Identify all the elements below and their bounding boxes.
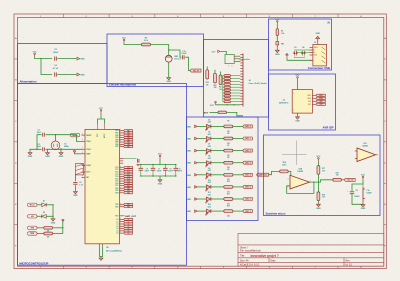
resistor R4	[44, 232, 53, 235]
resistor R13 10k	[333, 178, 342, 181]
svg-text:GND: GND	[28, 156, 33, 158]
svg-text:RESET: RESET	[86, 135, 91, 137]
ground flag right of C2	[77, 57, 85, 60]
svg-text:D+: D+	[314, 52, 316, 54]
svg-text:MIC_IN: MIC_IN	[347, 179, 353, 181]
svg-text:MOSI: MOSI	[307, 98, 311, 100]
svg-text:D5: D5	[208, 119, 210, 121]
diode D1	[37, 204, 42, 206]
connector J3 Controller	[225, 54, 234, 63]
hier label MIC_IN	[344, 178, 355, 181]
ferrite FB1	[276, 36, 278, 42]
svg-text:GND: GND	[45, 156, 50, 158]
svg-text:C6: C6	[178, 168, 180, 170]
svg-text:SET: SET	[204, 113, 209, 115]
ladder left bus	[222, 76, 224, 102]
svg-text:PB0: PB0	[115, 130, 118, 132]
sheet box connector area	[204, 40, 269, 118]
svg-text:L2: L2	[117, 224, 119, 226]
wire caps left bus to GND	[37, 135, 42, 150]
zener D3	[294, 51, 306, 56]
wire + hier label LED_1	[233, 138, 243, 140]
capacitor C5 100nF	[140, 165, 142, 169]
svg-text:X1: X1	[64, 144, 66, 146]
svg-text:PC5: PC5	[115, 178, 118, 180]
svg-text:Système micro: Système micro	[266, 212, 286, 216]
connector J4 Conn_01x05_Socket	[242, 54, 244, 107]
svg-text:PC3: PC3	[115, 174, 118, 176]
wire + hier label LED_3	[233, 162, 243, 164]
svg-text:LED_3: LED_3	[245, 162, 251, 164]
svg-text:1000uF: 1000uF	[354, 196, 360, 198]
resistor R19 (vertical)	[206, 70, 209, 79]
svg-text:GND: GND	[80, 74, 85, 76]
svg-text:10k: 10k	[219, 89, 222, 91]
svg-text:Sheet: /: Sheet: /	[240, 246, 248, 249]
capacitor C6 100nF	[175, 165, 177, 169]
svg-text:L6: L6	[117, 233, 119, 235]
LED D6	[197, 138, 206, 140]
resistor R12 330	[211, 210, 224, 212]
resistor R18 10k	[317, 182, 319, 192]
LED D11	[197, 198, 206, 200]
svg-text:Title:: Title:	[240, 255, 245, 258]
svg-text:PB2: PB2	[115, 135, 118, 137]
svg-text:KiCad E.D.A. 8.0.2: KiCad E.D.A. 8.0.2	[240, 263, 260, 266]
ladder resistor row 5	[224, 89, 231, 91]
svg-text:GND: GND	[275, 54, 280, 56]
ISP pin label SCK	[312, 100, 315, 102]
capacitor C9 100nF	[164, 165, 166, 169]
wire R13 to MIC_IN	[341, 179, 344, 181]
svg-text:J5: J5	[314, 42, 316, 44]
svg-text:Conn_01x05_Socket: Conn_01x05_Socket	[249, 82, 268, 85]
svg-text:VCC: VCC	[99, 108, 104, 110]
svg-text:D10: D10	[208, 180, 211, 182]
resistor R1	[44, 226, 53, 229]
svg-text:GND: GND	[158, 183, 163, 185]
svg-text:10k: 10k	[336, 175, 339, 177]
LED D12	[197, 210, 206, 212]
svg-text:SCK: SCK	[320, 101, 323, 103]
op-amp U9A LM386	[290, 175, 310, 189]
svg-text:330: 330	[227, 155, 230, 157]
svg-text:LM386: LM386	[362, 146, 368, 148]
svg-text:R3: R3	[145, 37, 147, 39]
svg-text:D6: D6	[208, 132, 210, 134]
resistor R21 (vertical)	[219, 75, 222, 85]
IC bottom GND pins	[99, 244, 101, 247]
resistor R14 100k	[280, 170, 289, 173]
sheet box Alimentation	[18, 44, 108, 84]
resistor R7 330	[211, 150, 224, 152]
wire VCC to C2/C4	[35, 57, 53, 59]
power flag VCC (microphone)	[123, 39, 125, 43]
wire VBUS	[287, 57, 313, 60]
ladder resistor row 7	[224, 95, 231, 97]
svg-text:C2: C2	[54, 49, 56, 51]
ladder resistor row 6	[224, 92, 231, 94]
ladder resistor row 0	[224, 75, 231, 77]
ground flag (LED 6)	[186, 198, 197, 201]
resistor R9 330	[211, 174, 224, 176]
capacitor C10 100nF	[183, 55, 185, 59]
svg-text:VCC: VCC	[210, 105, 215, 107]
ground flag (LED 7)	[186, 210, 197, 213]
svg-text:PD7: PD7	[115, 215, 118, 217]
USB connector J5	[313, 44, 327, 66]
crystal X1 8MHz	[51, 141, 60, 150]
feedback loop	[287, 182, 314, 193]
svg-text:R8: R8	[227, 157, 229, 159]
svg-text:10 k: 10 k	[322, 170, 325, 172]
wire VCC bracket to VCC/AVCC pins	[100, 113, 102, 119]
svg-text:Innovative projet ?: Innovative projet ?	[251, 254, 279, 258]
ladder resistor row 2	[224, 80, 231, 82]
svg-text:100nF: 100nF	[181, 53, 187, 55]
ground flag (LED 2)	[186, 149, 197, 152]
wire + hier label LED_5	[233, 186, 243, 188]
wire gnd to J3	[220, 51, 226, 54]
svg-text:GND: GND	[186, 151, 191, 153]
svg-text:Controller: Controller	[240, 58, 251, 61]
svg-text:L5: L5	[117, 230, 119, 232]
svg-text:VCC: VCC	[158, 153, 163, 155]
svg-text:PD3: PD3	[115, 190, 118, 192]
sheet box MICROCONTROLEUR	[18, 84, 187, 266]
ladder resistor row 3	[224, 83, 231, 85]
resistor R6 330	[211, 138, 224, 140]
svg-text:VCC: VCC	[122, 37, 127, 39]
svg-text:GND: GND	[316, 208, 321, 210]
local label Reset (IC)	[70, 133, 80, 136]
svg-text:FB1: FB1	[281, 43, 284, 45]
svg-text:10k: 10k	[214, 87, 217, 89]
svg-text:330: 330	[227, 131, 230, 133]
svg-text:Rev:: Rev:	[346, 260, 351, 262]
sheet box Systeme micro	[264, 135, 381, 216]
hier label AMP_OUT	[257, 173, 269, 176]
svg-text:330: 330	[227, 191, 230, 193]
wire C3 to XTAL2	[46, 148, 82, 150]
svg-text:PB6: PB6	[115, 144, 118, 146]
resistor R20 (vertical)	[214, 73, 217, 83]
capacitor C11 1000uF	[350, 192, 354, 194]
svg-text:R10: R10	[227, 181, 230, 183]
microphone MK1	[165, 55, 172, 62]
ISP pin label MOSI	[312, 97, 315, 99]
svg-text:330: 330	[227, 203, 230, 205]
svg-text:100nF: 100nF	[144, 171, 149, 173]
switch SW1	[76, 164, 84, 175]
svg-text:LM386: LM386	[298, 171, 304, 173]
svg-text:VCC: VCC	[275, 19, 280, 21]
wire C1 to XTAL1	[46, 135, 82, 142]
svg-text:MOSI: MOSI	[319, 98, 323, 100]
crosshair marker	[282, 141, 307, 166]
svg-text:330: 330	[227, 179, 230, 181]
svg-text:VCC: VCC	[361, 174, 366, 176]
svg-text:C16: C16	[367, 190, 370, 192]
svg-text:100nF: 100nF	[177, 171, 182, 173]
svg-text:PD2: PD2	[115, 188, 118, 190]
svg-text:GND: GND	[361, 208, 366, 210]
svg-text:D7: D7	[208, 144, 210, 146]
svg-text:VBUS: VBUS	[314, 47, 318, 49]
svg-text:J2: J2	[283, 100, 285, 102]
svg-text:AVR-ISP-6: AVR-ISP-6	[279, 101, 288, 104]
svg-text:GND: GND	[186, 187, 191, 189]
svg-text:GND: GND	[51, 222, 56, 224]
svg-text:AVR ISP: AVR ISP	[323, 126, 334, 130]
ground flag (USB R2)	[276, 45, 278, 50]
svg-text:L3: L3	[117, 226, 119, 228]
svg-text:GND: GND	[186, 126, 191, 128]
LED D9	[197, 174, 206, 176]
svg-text:D2: D2	[43, 212, 45, 214]
svg-text:LED_5: LED_5	[245, 187, 251, 189]
ladder resistor row 8	[224, 98, 231, 100]
svg-text:PB5: PB5	[115, 142, 118, 144]
svg-text:GND: GND	[166, 81, 171, 83]
svg-text:PD1: PD1	[115, 185, 118, 187]
svg-text:10k: 10k	[206, 84, 209, 86]
wire R3 to microphone	[151, 45, 169, 56]
svg-text:R6: R6	[227, 133, 229, 135]
frame column ticks and numbers	[63, 14, 338, 269]
resistor R11 330	[211, 198, 224, 200]
wire VCC to R3	[124, 43, 142, 45]
wires USB data lines	[294, 49, 309, 51]
svg-text:PD5: PD5	[115, 204, 118, 206]
svg-text:D1: D1	[43, 201, 45, 203]
power flag VCC (decoupling)	[159, 155, 161, 159]
svg-text:RST: RST	[308, 104, 311, 106]
svg-text:AMP_OUT: AMP_OUT	[125, 215, 136, 218]
svg-text:Electret microphone: Electret microphone	[109, 82, 136, 86]
resistor R10 330	[211, 186, 224, 188]
svg-text:100nF: 100nF	[157, 171, 162, 173]
power flag VCC (ISP)	[297, 77, 299, 81]
svg-text:R12: R12	[227, 205, 230, 207]
ladder resistor row 1	[224, 78, 231, 80]
capacitor C2 100nF	[55, 57, 57, 61]
svg-text:Connecteur USB: Connecteur USB	[308, 66, 330, 70]
ground flag (speaker)	[362, 201, 364, 205]
svg-text:C9: C9	[169, 168, 171, 170]
svg-text:R9: R9	[227, 169, 229, 171]
power flag VCC (IC top)	[100, 110, 102, 114]
svg-text:MICROCONTROLEUR: MICROCONTROLEUR	[19, 261, 48, 265]
IC U5 left pins	[82, 134, 86, 136]
sheet box AVR ISP	[269, 74, 336, 130]
svg-text:GND: GND	[186, 175, 191, 177]
wire + hier label LED_4	[233, 174, 243, 176]
ground flag (LED 4)	[186, 174, 197, 177]
svg-text:Electret: Electret	[175, 58, 182, 61]
local label RXD	[28, 232, 38, 235]
wire mic to ground	[168, 63, 170, 78]
decoupling bus	[141, 164, 176, 166]
svg-text:Date:: Date:	[271, 259, 277, 262]
svg-text:330: 330	[227, 143, 230, 145]
svg-text:PB7: PB7	[127, 146, 130, 148]
title block	[238, 234, 384, 267]
svg-text:GND: GND	[315, 33, 320, 35]
svg-text:LED_0: LED_0	[245, 126, 251, 128]
svg-text:LED_6: LED_6	[245, 199, 251, 201]
ground flags (crystal)	[28, 153, 32, 155]
wire + hier label LED_2	[233, 150, 243, 152]
resistor R8 330	[211, 162, 224, 164]
wire mic node to C10	[169, 50, 182, 57]
ISP pin label RST	[312, 103, 315, 105]
ladder resistor row 9	[224, 101, 231, 103]
svg-text:C11: C11	[355, 190, 358, 192]
ground flag (microphone)	[167, 78, 171, 80]
resistor R3 2.2k	[142, 43, 151, 46]
svg-text:C5: C5	[146, 168, 148, 170]
svg-text:1.5k: 1.5k	[281, 33, 284, 35]
svg-text:PB1: PB1	[115, 132, 118, 134]
op-amp output wire	[310, 180, 333, 182]
svg-text:GND: GND	[186, 211, 191, 213]
svg-text:D9: D9	[208, 168, 210, 170]
svg-text:1 uF: 1 uF	[79, 184, 82, 186]
svg-text:100nF: 100nF	[168, 171, 173, 173]
power flag VCC (USB)	[277, 21, 279, 25]
svg-text:10 k: 10 k	[322, 197, 325, 199]
speaker output: VCC	[362, 176, 364, 180]
svg-text:2: 2	[288, 186, 289, 188]
svg-text:GND: GND	[80, 58, 85, 60]
svg-text:4.7 uF: 4.7 uF	[53, 67, 59, 70]
sheet box LEDs	[187, 117, 259, 221]
LED D5	[197, 125, 206, 127]
LED D10	[197, 186, 206, 188]
connector AVR-ISP-6	[292, 90, 312, 114]
svg-text:PC0: PC0	[115, 167, 118, 169]
svg-text:PC6: PC6	[115, 181, 118, 183]
svg-text:Size: A4: Size: A4	[240, 259, 249, 262]
svg-text:GND: GND	[59, 156, 64, 158]
wire + hier label LED_0	[233, 125, 243, 127]
svg-text:GND: GND	[186, 163, 191, 165]
speaker LS1	[362, 188, 364, 201]
svg-text:330: 330	[227, 167, 230, 169]
op-amp U10 LM386	[357, 148, 376, 162]
ground flag right of C4	[77, 73, 85, 76]
local label +5V	[28, 215, 38, 218]
wire C10 to MIC_IN label	[185, 57, 190, 70]
svg-text:GND: GND	[211, 51, 216, 53]
svg-text:File: sonosifflard.sch: File: sonosifflard.sch	[240, 249, 262, 252]
local label Reset (diode row)	[28, 203, 38, 206]
resistor R17 10k	[318, 158, 320, 162]
wire R14 to op-amp + input	[288, 171, 291, 178]
svg-text:GND: GND	[186, 199, 191, 201]
ground flag (R18)	[316, 204, 320, 206]
svg-text:PD6: PD6	[127, 206, 130, 208]
svg-text:C7: C7	[158, 168, 160, 170]
frame row ticks and letters	[14, 59, 386, 225]
local label TXD	[28, 226, 38, 229]
svg-text:Reset: Reset	[30, 204, 35, 207]
svg-text:3: 3	[288, 178, 289, 180]
svg-text:LED_4: LED_4	[245, 173, 251, 176]
svg-text:VCC: VCC	[316, 156, 321, 158]
svg-text:R7: R7	[227, 145, 229, 147]
capacitor C8 1uF	[74, 175, 76, 182]
IC U5 right pin groups	[120, 130, 124, 132]
svg-text:ATmega8535H-A: ATmega8535H-A	[106, 250, 122, 253]
svg-text:100 k: 100 k	[282, 165, 287, 167]
svg-text:PC2: PC2	[115, 171, 118, 173]
LED D7	[197, 150, 206, 152]
wire + hier label LED_6	[233, 198, 243, 200]
svg-text:L6: L6	[128, 233, 130, 235]
svg-text:PD0: PD0	[115, 183, 118, 185]
svg-text:GND: GND	[186, 139, 191, 141]
svg-text:330: 330	[227, 216, 230, 218]
LED D8	[197, 162, 206, 164]
svg-text:100nF: 100nF	[53, 52, 59, 54]
svg-text:PB7: PB7	[115, 146, 118, 148]
svg-text:GND: GND	[295, 120, 300, 122]
svg-text:D3: D3	[294, 47, 296, 49]
svg-text:PC1: PC1	[115, 169, 118, 171]
svg-text:MIC_IN: MIC_IN	[193, 70, 200, 72]
ground flag (IC bottom)	[99, 258, 103, 260]
svg-text:D11: D11	[208, 192, 211, 194]
svg-text:PD6: PD6	[115, 206, 118, 208]
resistor R2	[276, 24, 278, 29]
svg-text:PB3: PB3	[115, 137, 118, 139]
ground flag (diodes)	[51, 219, 55, 221]
IC U5 ATmega body	[85, 129, 120, 243]
svg-text:D12: D12	[208, 204, 211, 206]
svg-text:D4: D4	[302, 46, 304, 49]
svg-text:D8: D8	[208, 156, 210, 158]
wire C11 to speaker loop	[352, 194, 363, 205]
wire + hier label LED_7	[233, 210, 243, 212]
capacitor C4 4.7uF	[55, 72, 57, 76]
svg-text:Id: 1/1: Id: 1/1	[346, 264, 353, 266]
power flag VCC (alimentation)	[34, 53, 36, 57]
svg-text:Alimentation: Alimentation	[20, 80, 37, 84]
svg-text:L1: L1	[117, 221, 119, 223]
sheet box Connecteur USB	[269, 19, 332, 70]
ground flag (LED 3)	[186, 161, 197, 164]
svg-text:SCK: SCK	[308, 101, 311, 103]
ISP pin label MISO	[312, 94, 315, 96]
wire diode junction	[52, 205, 54, 219]
svg-text:R11: R11	[227, 193, 230, 195]
ground flag (ISP)	[297, 113, 299, 117]
ground flag (LED 1)	[186, 137, 197, 140]
svg-text:8MHz: 8MHz	[64, 146, 69, 148]
hier label MIC_IN	[190, 69, 201, 72]
ground flag (LED 5)	[186, 186, 197, 189]
svg-text:VCC: VCC	[296, 75, 301, 77]
AREF decoupling cap	[123, 158, 136, 160]
svg-text:LM386: LM386	[367, 192, 372, 194]
resistor R5 330	[211, 125, 224, 127]
local label AMP_OUT (IC pin)	[120, 215, 124, 217]
diode D2	[37, 215, 42, 217]
ground flag (LED 0)	[186, 125, 197, 128]
svg-text:Reset: Reset	[73, 134, 78, 137]
